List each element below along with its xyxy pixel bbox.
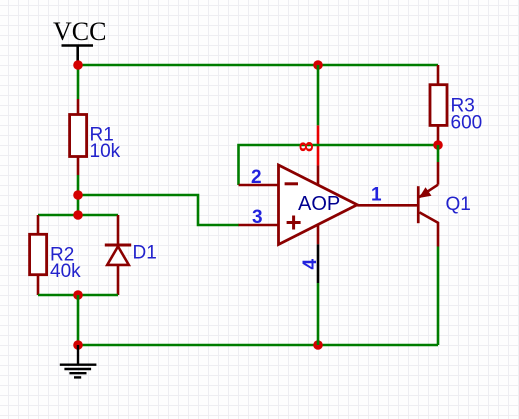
svg-text:1: 1 [371, 185, 382, 206]
junction dot R2/D1 bottom [73, 290, 83, 300]
wire node A to op-amp pin 3 [78, 195, 239, 225]
op-amp U1 pin 3 stub [239, 224, 279, 227]
op-amp plus sign [287, 216, 301, 230]
svg-text:D1: D1 [133, 243, 157, 264]
svg-text:10k: 10k [90, 141, 121, 162]
op-amp minus sign [285, 182, 298, 185]
wire R2/D1 bottom rail [38, 294, 118, 297]
svg-text:2: 2 [251, 167, 262, 188]
op-amp U1 pin 4 stub [317, 225, 320, 245]
resistor R2 [30, 215, 47, 295]
svg-text:8: 8 [297, 141, 318, 152]
wire top rail to pin 8 [317, 65, 320, 125]
junction dot R2/D1 top [73, 210, 83, 220]
op-amp U1 AOP body [279, 165, 358, 245]
resistor R1 [70, 99, 87, 175]
op-amp U1 pin 8 stub [317, 165, 320, 185]
resistor R3 [430, 65, 447, 145]
wire pin 2 feedback to R3 node [239, 145, 439, 185]
wire R1 to node A [77, 175, 80, 195]
junction dot R3 feedback node [433, 140, 443, 150]
wire top rail [78, 64, 438, 67]
junction dot VCC node [73, 60, 83, 70]
wire Q1 collector to bottom rail [437, 247, 440, 346]
ground [60, 345, 97, 377]
op-amp pin 1 stub / Q1 base wire [357, 204, 418, 207]
svg-text:600: 600 [451, 113, 483, 134]
diode D1 [105, 215, 131, 295]
junction dot top rail pin 8 branch [313, 60, 323, 70]
op-amp U1 pin 2 stub [239, 184, 279, 187]
junction dot node A [73, 190, 83, 200]
wire R2/D1 bottom to ground node [77, 295, 80, 345]
wire bottom rail [78, 344, 438, 347]
svg-text:AOP: AOP [298, 193, 340, 215]
wire R2/D1 top rail [38, 214, 118, 217]
svg-text:40k: 40k [50, 261, 81, 282]
op-amp U1 pin 8 red wire segment [317, 125, 320, 165]
svg-text:3: 3 [252, 207, 263, 228]
wire VCC node to R1 [77, 65, 80, 99]
wire R3 node to Q1 emitter [437, 145, 440, 162]
svg-text:VCC: VCC [53, 17, 106, 46]
svg-text:Q1: Q1 [446, 194, 471, 215]
svg-text:4: 4 [300, 259, 321, 270]
transistor Q1 [417, 162, 438, 247]
op-amp U1 pin 4 black segment [317, 244, 320, 283]
junction dot ground node [73, 340, 83, 350]
wire pin 4 to bottom rail [317, 283, 320, 345]
junction dot pin 4 bottom rail [313, 340, 323, 350]
wire node A down to R2/D1 top rail [77, 195, 80, 215]
power VCC [53, 17, 106, 62]
